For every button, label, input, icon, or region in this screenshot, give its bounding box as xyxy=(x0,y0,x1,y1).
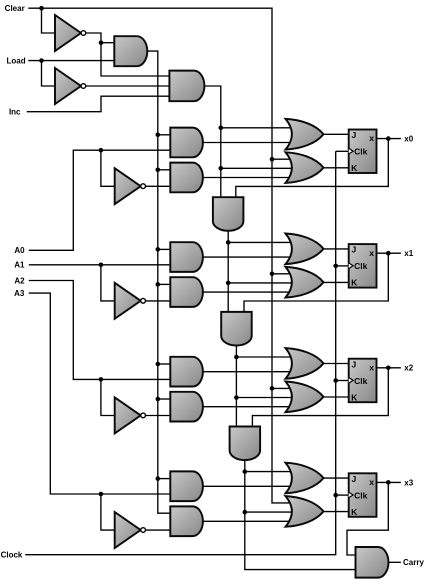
svg-text:Clear: Clear xyxy=(5,4,25,13)
svg-text:x: x xyxy=(369,477,374,487)
svg-text:x3: x3 xyxy=(404,478,413,487)
svg-text:K: K xyxy=(351,507,358,517)
svg-text:Carry: Carry xyxy=(403,558,424,567)
svg-text:x0: x0 xyxy=(404,135,413,144)
svg-text:K: K xyxy=(351,392,358,402)
svg-text:A1: A1 xyxy=(14,261,25,270)
svg-text:Inc: Inc xyxy=(9,108,21,117)
svg-text:Clock: Clock xyxy=(1,551,23,560)
svg-text:J: J xyxy=(352,130,357,140)
svg-text:Load: Load xyxy=(6,57,25,66)
svg-text:Clk: Clk xyxy=(354,376,368,386)
svg-text:J: J xyxy=(352,359,357,369)
svg-text:A3: A3 xyxy=(14,289,25,298)
svg-text:A0: A0 xyxy=(14,246,25,255)
svg-text:x: x xyxy=(369,133,374,143)
svg-text:x: x xyxy=(369,248,374,258)
svg-text:Clk: Clk xyxy=(354,261,368,271)
svg-text:A2: A2 xyxy=(14,276,25,285)
svg-text:J: J xyxy=(352,245,357,255)
svg-text:J: J xyxy=(352,474,357,484)
svg-text:x2: x2 xyxy=(404,364,413,373)
svg-text:K: K xyxy=(351,278,358,288)
svg-text:Clk: Clk xyxy=(354,147,368,157)
svg-text:x: x xyxy=(369,362,374,372)
svg-text:x1: x1 xyxy=(404,249,413,258)
svg-text:Clk: Clk xyxy=(354,490,368,500)
svg-text:K: K xyxy=(351,163,358,173)
